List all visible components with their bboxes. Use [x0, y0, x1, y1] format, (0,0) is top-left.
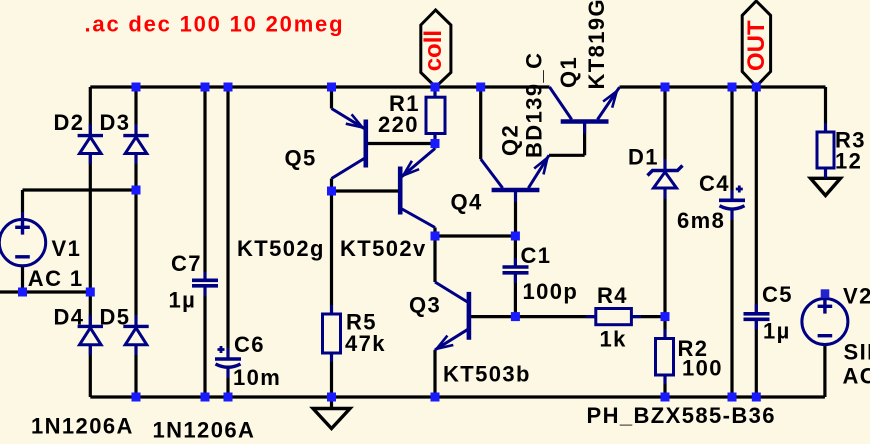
- svg-text:D4: D4: [54, 305, 85, 330]
- svg-text:BD139_C: BD139_C: [522, 52, 547, 158]
- svg-text:D5: D5: [100, 305, 131, 330]
- svg-text:Q4: Q4: [451, 190, 483, 215]
- svg-text:Q2: Q2: [498, 124, 523, 156]
- svg-text:100: 100: [682, 356, 723, 381]
- svg-text:C4: C4: [699, 171, 730, 196]
- svg-text:.ac dec 100 10 20meg: .ac dec 100 10 20meg: [85, 11, 345, 36]
- svg-text:1µ: 1µ: [763, 319, 791, 344]
- svg-text:6m8: 6m8: [677, 208, 725, 233]
- svg-text:V2: V2: [843, 284, 870, 309]
- svg-text:D3: D3: [100, 110, 131, 135]
- svg-text:D1: D1: [628, 145, 659, 170]
- svg-text:PH_BZX585-B36: PH_BZX585-B36: [587, 403, 776, 428]
- svg-text:C1: C1: [521, 243, 552, 268]
- svg-text:1k: 1k: [600, 327, 627, 352]
- svg-text:C5: C5: [762, 282, 793, 307]
- svg-text:1µ: 1µ: [169, 288, 197, 313]
- svg-text:12: 12: [835, 149, 862, 174]
- svg-text:C6: C6: [234, 332, 265, 357]
- svg-text:100p: 100p: [523, 279, 579, 304]
- svg-text:Q3: Q3: [409, 293, 441, 318]
- svg-text:R4: R4: [597, 283, 628, 308]
- svg-text:1N1206A: 1N1206A: [31, 414, 134, 439]
- svg-text:KT502g: KT502g: [237, 236, 325, 261]
- svg-text:C7: C7: [171, 251, 202, 276]
- svg-text:1N1206A: 1N1206A: [153, 418, 256, 440]
- svg-text:47k: 47k: [345, 331, 386, 356]
- svg-text:V1: V1: [52, 236, 82, 261]
- svg-text:KT502v: KT502v: [340, 236, 427, 261]
- svg-text:OUT: OUT: [743, 20, 770, 71]
- svg-text:AC 1: AC 1: [28, 266, 84, 291]
- svg-text:KT819G: KT819G: [584, 0, 609, 90]
- svg-text:D2: D2: [54, 110, 85, 135]
- svg-text:Q1: Q1: [556, 56, 581, 88]
- svg-text:10m: 10m: [233, 365, 281, 390]
- svg-text:Q5: Q5: [285, 146, 317, 171]
- svg-text:AC 1: AC 1: [843, 364, 870, 389]
- svg-text:SINE: SINE: [844, 340, 870, 365]
- svg-text:220: 220: [378, 112, 419, 137]
- svg-text:KT503b: KT503b: [443, 362, 531, 387]
- svg-text:coll: coll: [420, 30, 447, 71]
